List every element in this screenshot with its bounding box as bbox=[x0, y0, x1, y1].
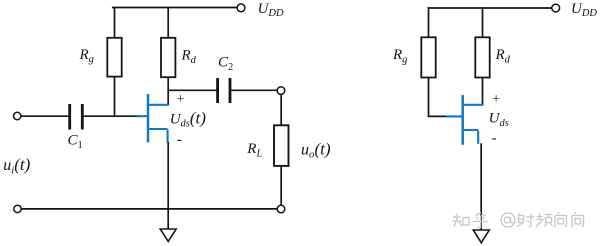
svg-text:Rd: Rd bbox=[495, 47, 511, 65]
watermark char 问 (second) bbox=[572, 212, 584, 228]
wire: Rg bottom down and right to gate (right circuit) bbox=[429, 77, 450, 116]
terminal: U_DD supply (right circuit) bbox=[552, 4, 560, 12]
watermark: 知乎 @射频问问 (light gray) bbox=[453, 212, 584, 228]
resistor RL bbox=[274, 125, 289, 166]
watermark char @ bbox=[501, 213, 515, 227]
wire: Q1 source down through rail to ground bbox=[167, 142, 169, 229]
watermark char 乎 bbox=[473, 213, 489, 228]
watermark char 问 (first) bbox=[555, 212, 567, 228]
svg-text:+: + bbox=[491, 92, 500, 107]
ground (right circuit) bbox=[473, 230, 489, 243]
capacitor C2 bbox=[218, 78, 230, 103]
svg-text:Rd: Rd bbox=[181, 48, 197, 66]
resistor Rg (right circuit) bbox=[421, 37, 435, 77]
svg-text:Rg: Rg bbox=[392, 47, 407, 65]
resistor Rd (right circuit) bbox=[475, 37, 489, 77]
resistor Rg (left circuit) bbox=[107, 38, 121, 77]
wire: rail down to Rg (right) bbox=[428, 7, 430, 37]
svg-text:Uds: Uds bbox=[489, 111, 509, 129]
terminal: U_DD supply (left circuit) bbox=[237, 4, 245, 12]
transistor Q1 (MOSFET, blue) bbox=[137, 94, 169, 143]
resistor Rd (left circuit) bbox=[161, 38, 175, 77]
svg-text:Uds(t): Uds(t) bbox=[170, 108, 207, 129]
svg-text:RL: RL bbox=[246, 141, 262, 159]
wire: output terminal down to RL bbox=[280, 94, 282, 125]
wire: input terminal to C1 bbox=[21, 115, 69, 117]
svg-text:Rg: Rg bbox=[79, 47, 94, 65]
svg-text:UDD: UDD bbox=[258, 1, 284, 19]
wire: rail down to Rg (left) bbox=[114, 7, 116, 38]
svg-text:+: + bbox=[176, 92, 185, 107]
wire: VDD top rail (right circuit) bbox=[428, 7, 552, 9]
wire: VDD top rail (left circuit) bbox=[112, 7, 237, 9]
wire: drain node to capacitor C2 bbox=[168, 89, 216, 91]
transistor Q2 (MOSFET, blue) bbox=[446, 95, 483, 145]
terminal: input bottom (left circuit) bbox=[14, 205, 21, 212]
svg-text:uo(t): uo(t) bbox=[301, 139, 331, 160]
wire: Rd bottom to drain node (left) bbox=[167, 77, 169, 105]
wire: bottom rail (left circuit) bbox=[21, 208, 277, 210]
terminal: output top (left circuit) bbox=[277, 87, 285, 95]
wire: C1 to transistor gate bbox=[84, 115, 140, 117]
svg-text:C1: C1 bbox=[68, 133, 83, 151]
wire: Q2 source down to ground (right circuit) bbox=[480, 143, 482, 230]
svg-text:C2: C2 bbox=[218, 55, 233, 73]
wire: RL bottom to output bottom terminal bbox=[280, 166, 282, 206]
svg-text:ui(t): ui(t) bbox=[3, 155, 30, 176]
wire: rail down to Rd (right) bbox=[482, 7, 484, 37]
terminal: input top (left circuit) bbox=[14, 112, 21, 119]
watermark char 知 bbox=[453, 214, 470, 228]
capacitor C1 bbox=[70, 104, 83, 130]
svg-text:UDD: UDD bbox=[571, 1, 597, 19]
wire: Rg bottom to gate node (left) bbox=[114, 77, 116, 116]
watermark char 射 bbox=[517, 214, 534, 228]
terminal: output bottom (left circuit) bbox=[277, 205, 285, 213]
wire: C2 to output top terminal bbox=[231, 89, 277, 91]
wire: Rd bottom to drain (right circuit) bbox=[482, 77, 484, 105]
ground (left circuit) bbox=[160, 229, 176, 241]
watermark char 频 bbox=[536, 214, 553, 227]
wire: rail down to Rd (left) bbox=[167, 7, 169, 38]
svg-text:-: - bbox=[177, 132, 182, 148]
svg-text:-: - bbox=[492, 131, 497, 147]
